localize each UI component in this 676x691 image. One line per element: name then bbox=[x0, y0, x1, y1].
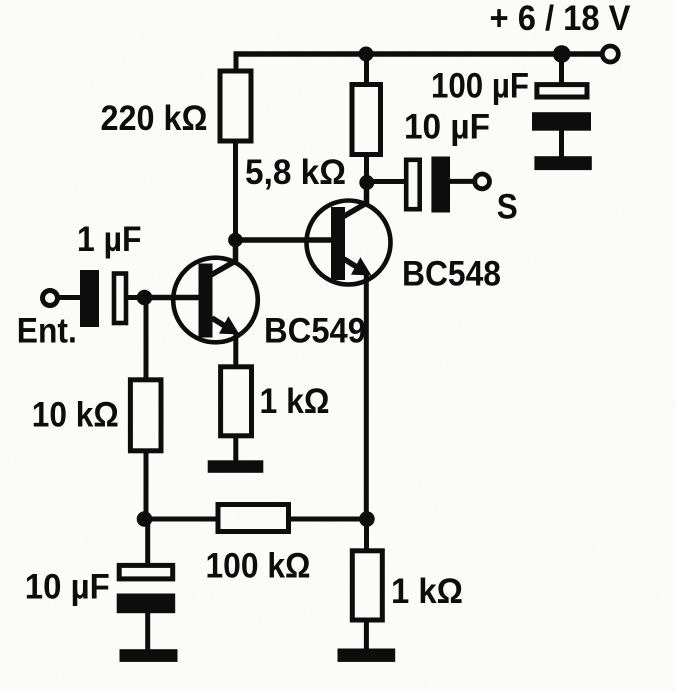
svg-text:Ent.: Ent. bbox=[17, 312, 77, 351]
Q2 body circle bbox=[307, 201, 391, 285]
wire R2 bottom to node C bbox=[144, 450, 149, 519]
svg-text:220 kΩ: 220 kΩ bbox=[101, 99, 208, 138]
node A junction dot bbox=[228, 233, 243, 248]
wire R5 to node D bbox=[288, 517, 367, 522]
svg-text:BC549: BC549 bbox=[264, 312, 366, 351]
capacitor C3 10µF positive plate (hollow) bbox=[406, 160, 420, 209]
terminal S open circle bbox=[475, 174, 490, 189]
capacitor C1 1µF positive plate (hollow) bbox=[114, 274, 126, 324]
wire R6 to ground bbox=[364, 620, 369, 650]
resistor R3 1k body bbox=[221, 367, 252, 436]
wire Q2 emitter down to node D bbox=[364, 273, 369, 519]
node D junction dot bbox=[359, 511, 375, 527]
wire node B down to R2 bbox=[144, 298, 149, 381]
wire node A to Q2 base bbox=[235, 237, 332, 243]
Q1 body circle bbox=[173, 258, 258, 343]
svg-text:1 kΩ: 1 kΩ bbox=[391, 572, 463, 611]
wire Q1 emitter down to R3 bbox=[233, 332, 238, 367]
svg-text:BC548: BC548 bbox=[402, 255, 501, 294]
node G junction dot on rail bbox=[553, 45, 571, 63]
node E junction dot bbox=[359, 175, 374, 190]
ground bar under R3 bbox=[208, 460, 264, 473]
resistor R5 100k body bbox=[218, 505, 289, 532]
capacitor C1 1µF negative plate (solid) bbox=[80, 270, 99, 327]
Q2 collector lead from node E bbox=[344, 181, 367, 217]
wire R4 top to node F on rail bbox=[364, 52, 369, 85]
capacitor C4 10µF positive plate (hollow) bbox=[119, 565, 173, 579]
terminal +V open circle bbox=[602, 46, 618, 62]
wire R1 bottom to node A bbox=[233, 141, 238, 240]
wire node C to R5 bbox=[145, 517, 220, 522]
resistor R1 220k body bbox=[220, 71, 251, 141]
terminal Ent. open circle bbox=[43, 291, 58, 306]
transistor Q2 BC548 bbox=[307, 181, 391, 285]
wire corner rail down to R1 top bbox=[234, 52, 239, 72]
capacitor C2 100µF negative plate (solid) bbox=[532, 112, 591, 131]
resistor R6 1k body bbox=[352, 551, 382, 620]
wire C2 to ground bbox=[559, 130, 564, 157]
Q2 emitter arrow bbox=[351, 257, 372, 275]
resistor R2 10k body bbox=[130, 380, 161, 451]
transistor Q1 BC549 bbox=[173, 238, 258, 342]
svg-text:+ 6 / 18 V: + 6 / 18 V bbox=[490, 0, 632, 38]
wire R3 to ground bbox=[233, 435, 238, 462]
svg-text:1 kΩ: 1 kΩ bbox=[260, 382, 330, 421]
Q1 emitter arrow bbox=[219, 316, 240, 334]
Q2 base bar bbox=[331, 207, 345, 280]
node C junction dot bbox=[137, 511, 153, 527]
capacitor C2 100µF positive plate (hollow) bbox=[537, 85, 587, 97]
wire C3 to terminal S bbox=[450, 179, 474, 184]
wire node E to C3 bbox=[367, 179, 407, 184]
capacitor C4 10µF negative plate (solid) bbox=[117, 594, 176, 614]
node F junction dot on rail bbox=[359, 47, 374, 62]
ground bar bottom left bbox=[120, 649, 178, 662]
resistor R4 5.8k body bbox=[352, 85, 381, 155]
wire C4 to ground bbox=[145, 613, 150, 651]
capacitor C3 10µF negative plate (solid) bbox=[431, 157, 450, 213]
Q1 collector lead from node A bbox=[211, 238, 236, 275]
svg-text:100 µF: 100 µF bbox=[431, 67, 529, 106]
svg-text:10 µF: 10 µF bbox=[25, 568, 110, 607]
wire node D to R6 bbox=[364, 519, 369, 552]
svg-text:10 µF: 10 µF bbox=[404, 108, 490, 147]
svg-text:5,8 kΩ: 5,8 kΩ bbox=[245, 153, 346, 192]
Q2 emitter lead bbox=[344, 259, 364, 272]
wire node C down to C4 bbox=[145, 519, 150, 565]
wire terminal to C1 bbox=[58, 295, 83, 300]
ground bar top right bbox=[534, 156, 591, 170]
ground bar bottom right bbox=[338, 649, 396, 662]
wire node B to Q1 base bbox=[145, 295, 201, 301]
svg-text:100 kΩ: 100 kΩ bbox=[206, 547, 311, 586]
svg-text:10 kΩ: 10 kΩ bbox=[32, 396, 119, 435]
Q1 emitter lead bbox=[212, 318, 232, 331]
svg-text:S: S bbox=[497, 188, 518, 227]
svg-text:1 µF: 1 µF bbox=[77, 220, 142, 259]
node B junction dot bbox=[137, 290, 153, 306]
wire node E up to R4 bbox=[364, 155, 369, 182]
wire node G down to C2 bbox=[559, 54, 564, 85]
wire top power rail bbox=[234, 51, 602, 57]
Q1 base bar bbox=[199, 264, 213, 338]
wire C1 to node B bbox=[128, 295, 146, 300]
